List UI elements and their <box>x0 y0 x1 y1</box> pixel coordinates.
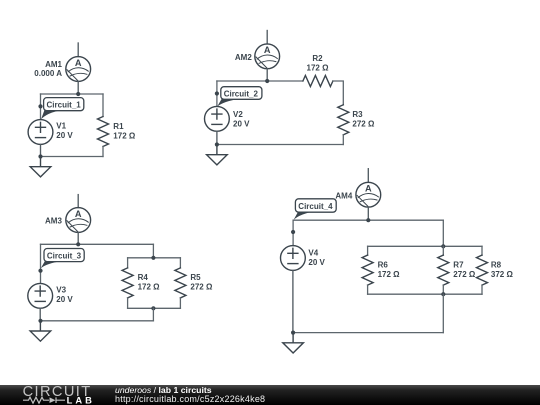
wire: circuit 2 right bottom <box>342 135 344 145</box>
wire: circuit 4 bottom <box>293 332 443 334</box>
ground circuit 3 <box>30 321 51 341</box>
wire: circuit 3 right drop to bank <box>152 244 154 257</box>
svg-text:Circuit_4: Circuit_4 <box>298 202 333 211</box>
resistor R7 <box>442 246 444 255</box>
flag label Circuit_2 <box>217 87 262 107</box>
footer metadata text <box>115 386 265 404</box>
ground circuit 2 <box>207 145 228 165</box>
wire: V1 bottom stem <box>40 144 42 156</box>
voltage source V4 <box>281 246 306 271</box>
wire: ammeter AM2 bottom stem <box>266 69 268 81</box>
wire: R5 bottom stub <box>179 298 181 308</box>
junction dot <box>441 244 445 248</box>
svg-text:AM4: AM4 <box>335 191 352 200</box>
junction dot <box>151 256 155 260</box>
junction dot <box>366 218 370 222</box>
svg-text:V2: V2 <box>233 110 243 119</box>
voltage source V3 <box>28 283 53 308</box>
ground circuit 4 <box>283 333 304 353</box>
junction dot node Circuit_1 <box>38 104 42 108</box>
resistor R2 <box>303 76 333 87</box>
junction dot <box>151 306 155 310</box>
svg-text:272 Ω: 272 Ω <box>453 270 476 279</box>
wire: circuit 3 left (to V3) <box>40 244 42 283</box>
CircuitLab logo <box>22 385 94 405</box>
svg-text:20 V: 20 V <box>56 131 73 140</box>
resistor R1 <box>98 117 109 147</box>
wire: bank drop to bottom <box>442 294 444 332</box>
wire: circuit 1 left (to V1) <box>40 94 42 120</box>
junction dot node Circuit_4 <box>291 230 295 234</box>
junction dot node Circuit_3 <box>38 269 42 273</box>
wire: circuit 1 bottom <box>41 156 104 158</box>
resistor R3 <box>338 105 349 135</box>
svg-text:Circuit_1: Circuit_1 <box>47 101 82 110</box>
wire: V2 bottom stem <box>216 131 218 144</box>
svg-text:R3: R3 <box>352 110 363 119</box>
wire: circuit 1 right top (to R1) <box>102 94 104 117</box>
junction dot <box>441 292 445 296</box>
svg-text:AM1: AM1 <box>45 60 62 69</box>
wire: circuit 2 top right corner <box>333 81 343 105</box>
svg-text:172 Ω: 172 Ω <box>378 270 401 279</box>
svg-text:R6: R6 <box>378 261 389 270</box>
svg-text:AM3: AM3 <box>45 217 62 226</box>
wire: circuit 4 left (to V4) <box>292 220 294 246</box>
svg-text:LAB: LAB <box>67 395 94 405</box>
ammeter AM4 <box>356 182 381 207</box>
wire: ammeter AM1 bottom stem <box>77 81 79 94</box>
svg-text:272 Ω: 272 Ω <box>190 283 213 292</box>
ammeter AM2 <box>255 44 280 69</box>
junction dot <box>215 142 219 146</box>
svg-text:AM2: AM2 <box>235 53 252 62</box>
svg-text:372 Ω: 372 Ω <box>491 270 514 279</box>
svg-text:R7: R7 <box>453 261 464 270</box>
svg-text:272 Ω: 272 Ω <box>352 120 375 129</box>
junction dot node Circuit_2 <box>215 91 219 95</box>
flag label Circuit_3 <box>41 249 84 269</box>
svg-text:20 V: 20 V <box>56 295 73 304</box>
resistor R8 <box>481 246 483 255</box>
voltage source V1 <box>28 120 53 145</box>
wire: circuit 1 right bottom <box>102 147 104 157</box>
junction dot <box>76 92 80 96</box>
wire: bank bottom bar <box>128 307 181 309</box>
wire: ammeter AM3 bottom stem <box>77 232 79 244</box>
wire: bank top bar <box>368 245 482 247</box>
svg-text:R1: R1 <box>113 122 124 131</box>
ammeter AM3 <box>66 208 91 233</box>
wire: bank bottom bar <box>368 293 482 295</box>
wire: R6 top stub <box>367 246 369 255</box>
wire: circuit 3 bottom <box>41 320 154 322</box>
wire: circuit 3 top <box>41 243 154 245</box>
svg-text:172 Ω: 172 Ω <box>138 283 161 292</box>
wire: R6 bottom stub <box>367 285 369 294</box>
svg-text:Circuit_2: Circuit_2 <box>224 90 259 99</box>
svg-text:172 Ω: 172 Ω <box>113 132 136 141</box>
ground circuit 1 <box>30 157 51 177</box>
resistor R6 <box>362 255 373 285</box>
wire: V3 bottom stem <box>39 308 41 321</box>
wire: R4 bottom stub <box>127 298 129 308</box>
logo schematic squiggle <box>23 397 65 403</box>
wire: circuit 4 top <box>293 219 443 221</box>
wire: R8 bottom stub <box>481 285 483 294</box>
svg-text:R2: R2 <box>312 54 323 63</box>
wire: ammeter AM3 top stem <box>77 195 79 208</box>
wire: ammeter AM1 top stem <box>77 43 79 57</box>
wire: circuit 2 left (to V2) <box>216 81 218 106</box>
resistor R5 <box>175 268 186 298</box>
junction dot <box>38 154 42 158</box>
svg-text:Circuit_3: Circuit_3 <box>47 252 82 261</box>
svg-text:20 V: 20 V <box>308 258 325 267</box>
svg-text:V4: V4 <box>308 248 318 257</box>
voltage source V2 <box>205 106 230 131</box>
wire: bank drop to bottom <box>152 308 154 321</box>
ammeter AM1 <box>66 57 91 82</box>
svg-text:0.000 A: 0.000 A <box>34 69 62 78</box>
wire: R4 top stub <box>127 258 129 268</box>
svg-text:R4: R4 <box>138 273 149 282</box>
flag label Circuit_1 <box>41 98 84 120</box>
flag label Circuit_4 <box>294 199 337 220</box>
junction dot <box>38 319 42 323</box>
wire: V4 bottom stem <box>292 270 294 332</box>
wire: circuit 4 right drop to bank <box>442 220 444 246</box>
wire: R5 top stub <box>179 258 181 268</box>
wire: circuit 2 top left <box>217 80 303 82</box>
wire: circuit 2 bottom <box>217 144 343 146</box>
resistor R4 <box>122 268 133 298</box>
svg-text:V3: V3 <box>56 286 66 295</box>
svg-text:V1: V1 <box>56 122 66 131</box>
wire: circuit 1 top <box>41 93 104 95</box>
junction dot <box>265 79 269 83</box>
junction dot <box>291 331 295 335</box>
wire: ammeter AM4 bottom stem <box>367 207 369 220</box>
svg-text:R8: R8 <box>491 261 502 270</box>
wire: bank top bar <box>128 257 181 259</box>
footer bar <box>0 385 540 405</box>
wire: ammeter AM2 top stem <box>266 31 268 44</box>
svg-text:20 V: 20 V <box>233 120 250 129</box>
wire: ammeter AM4 top stem <box>367 169 369 183</box>
svg-text:R5: R5 <box>190 273 201 282</box>
wire: R7 bottom stub <box>442 285 444 294</box>
junction dot <box>76 242 80 246</box>
svg-text:172 Ω: 172 Ω <box>307 63 330 72</box>
